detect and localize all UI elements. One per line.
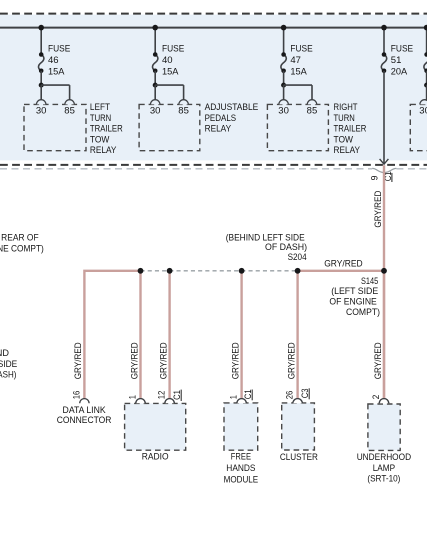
svg-text:15A: 15A <box>162 66 179 77</box>
terminal arc at underhood lamp pin 2 <box>379 399 388 404</box>
fuse F1 (FUSE 46) <box>39 55 44 71</box>
svg-text:MODULE: MODULE <box>224 474 259 485</box>
right turn trailer tow relay box <box>267 104 328 150</box>
tee junction dot <box>281 83 286 88</box>
svg-text:26: 26 <box>285 391 296 400</box>
svg-text:LAMP: LAMP <box>373 463 395 474</box>
connector C1 underline <box>391 173 393 182</box>
svg-text:DATA LINK: DATA LINK <box>63 405 107 416</box>
terminal arc at hands free module pin 1 <box>237 399 246 404</box>
cluster box <box>282 403 315 450</box>
terminal arc at radio pin 12 <box>165 399 174 404</box>
partial relay pin 30 terminal arc <box>420 100 427 105</box>
svg-text:12: 12 <box>157 391 168 400</box>
wire from bus to fuse F3 <box>283 28 285 55</box>
svg-text:RELAY: RELAY <box>334 145 361 156</box>
PDC bottom dashed border <box>0 164 427 166</box>
svg-text:CLUSTER: CLUSTER <box>280 452 318 463</box>
GRY/RED wire splice S204 to splice S145 <box>298 270 384 272</box>
bus junction dot at fuse F4 <box>381 25 387 31</box>
pin 85 drop wire <box>69 85 71 100</box>
partial relay at right edge box <box>410 104 427 150</box>
svg-text:16: 16 <box>71 391 82 400</box>
svg-text:85: 85 <box>178 106 189 117</box>
GRY/RED wire drop to radio pin 12 <box>168 271 170 399</box>
svg-text:47: 47 <box>290 55 301 66</box>
svg-text:FUSE: FUSE <box>162 43 184 54</box>
radio box <box>125 403 186 450</box>
right turn trailer tow relay pin 30 terminal arc <box>279 100 288 105</box>
svg-text:PEDALS: PEDALS <box>205 113 237 124</box>
svg-text:RADIO: RADIO <box>142 452 169 463</box>
svg-text:GRY/RED: GRY/RED <box>324 259 363 270</box>
wire fuse F51 output down to PDC border <box>383 71 385 164</box>
svg-text:85: 85 <box>64 106 75 117</box>
fuse F2 (FUSE 40) <box>153 55 158 71</box>
svg-text:FUSE: FUSE <box>290 43 312 54</box>
svg-text:1: 1 <box>229 395 240 399</box>
svg-text:ND: ND <box>0 348 9 359</box>
svg-text:(SRT-10): (SRT-10) <box>367 474 400 485</box>
svg-text:30: 30 <box>150 106 161 117</box>
svg-text:SIDE: SIDE <box>0 359 17 370</box>
pin 30 drop wire <box>154 85 156 100</box>
svg-text:40: 40 <box>162 55 173 66</box>
power distribution center interior (blue fill) <box>0 15 427 161</box>
wire from bus to fuse F5 <box>426 28 427 55</box>
GRY/RED wire drop to radio pin 1 <box>139 271 141 399</box>
terminal arc at cluster pin 26 <box>293 399 302 404</box>
wire fuse F5 to relay tee <box>426 71 427 85</box>
adjustable pedals relay pin 85 terminal arc <box>179 100 188 105</box>
svg-text:20A: 20A <box>391 66 408 77</box>
splice S145 dot <box>381 268 387 274</box>
wire from bus to fuse F2 <box>154 28 156 55</box>
svg-text:GRY/RED: GRY/RED <box>373 190 384 227</box>
svg-text:TOW: TOW <box>90 134 110 145</box>
wire fuse F3 to relay tee <box>283 71 285 85</box>
bus bar wire (fused B+) <box>0 27 427 29</box>
svg-text:GRY/RED: GRY/RED <box>73 342 84 379</box>
svg-text:TURN: TURN <box>334 113 355 124</box>
pin 85 drop wire <box>183 85 185 100</box>
svg-text:HANDS: HANDS <box>226 463 255 474</box>
hands free module box <box>224 403 258 450</box>
svg-text:30: 30 <box>278 106 289 117</box>
svg-text:TRAILER: TRAILER <box>334 124 367 135</box>
unshown-circuits dashed wire between splices <box>141 270 298 272</box>
bus junction dot at fuse F1 <box>38 25 44 31</box>
svg-text:GRY/RED: GRY/RED <box>286 342 297 379</box>
dash panel grey dashed border <box>0 168 372 170</box>
bus junction dot at fuse F3 <box>281 25 287 31</box>
GRY/RED wire corner run to data link connector <box>84 271 140 399</box>
svg-text:COMPT): COMPT) <box>346 307 380 318</box>
svg-text:UNDERHOOD: UNDERHOOD <box>357 452 412 463</box>
wire from bus to fuse F4 <box>383 28 385 55</box>
tee junction dot <box>39 83 44 88</box>
svg-text:GRY/RED: GRY/RED <box>373 342 384 379</box>
grey connector bracket at dash panel line <box>372 168 396 172</box>
GRY/RED wire splice S145 down to underhood lamp <box>383 271 385 399</box>
fuse F5 (partial at edge) <box>424 55 427 71</box>
tee junction dot <box>153 83 158 88</box>
right turn trailer tow relay pin 85 terminal arc <box>307 100 316 105</box>
splice dot (hands free module branch) <box>239 268 245 274</box>
tee branch wire to pin 85 <box>41 84 69 86</box>
PDC top dashed border <box>0 13 427 15</box>
svg-text:ADJUSTABLE: ADJUSTABLE <box>205 102 259 113</box>
terminal arc at data link connector <box>80 399 89 404</box>
svg-text:RIGHT: RIGHT <box>334 102 358 113</box>
svg-text:9: 9 <box>370 176 381 181</box>
svg-text:ENGINE COMPT): ENGINE COMPT) <box>0 244 44 255</box>
svg-text:CONNECTOR: CONNECTOR <box>57 415 112 426</box>
left turn trailer tow relay box <box>24 104 86 150</box>
svg-text:ASH): ASH) <box>0 370 16 381</box>
terminal arc at radio pin 1 <box>136 399 145 404</box>
GRY/RED wire drop to cluster pin 26 <box>296 271 298 399</box>
splice dot (radio pin 12 branch) <box>167 268 173 274</box>
tee junction dot <box>424 83 427 88</box>
svg-text:30: 30 <box>419 106 427 117</box>
wire from bus to fuse F1 <box>40 28 42 55</box>
svg-text:(LEFT REAR OF: (LEFT REAR OF <box>0 233 39 244</box>
arrowhead leaving PDC <box>380 159 389 164</box>
pin 30 drop wire <box>283 85 285 100</box>
left turn trailer tow relay pin 85 terminal arc <box>65 100 74 105</box>
left turn trailer tow relay pin 30 terminal arc <box>37 100 46 105</box>
svg-text:RELAY: RELAY <box>205 124 232 135</box>
svg-text:FUSE: FUSE <box>48 43 70 54</box>
splice S204 dot <box>295 268 301 274</box>
underhood lamp box <box>368 404 400 450</box>
splice dot (radio pin 1 branch) <box>138 268 144 274</box>
svg-text:1: 1 <box>128 395 139 399</box>
svg-text:TOW: TOW <box>334 134 354 145</box>
svg-text:15A: 15A <box>48 66 65 77</box>
svg-text:FREE: FREE <box>231 451 251 462</box>
wire fuse F1 to relay tee <box>40 71 42 85</box>
fuse F4 (FUSE 51) <box>381 55 386 71</box>
svg-text:15A: 15A <box>290 66 307 77</box>
svg-text:LEFT: LEFT <box>90 102 110 113</box>
svg-text:46: 46 <box>48 55 59 66</box>
tee branch wire to pin 85 <box>155 84 183 86</box>
svg-text:85: 85 <box>307 106 318 117</box>
svg-text:TRAILER: TRAILER <box>90 124 123 135</box>
svg-text:S204: S204 <box>288 252 307 263</box>
bus junction dot at fuse F2 <box>152 25 158 31</box>
pin 30 drop wire <box>426 85 427 100</box>
pin 30 drop wire <box>40 85 42 100</box>
svg-text:RELAY: RELAY <box>90 145 117 156</box>
adjustable pedals relay pin 30 terminal arc <box>151 100 160 105</box>
adjustable pedals relay box <box>139 104 200 150</box>
svg-text:FUSE: FUSE <box>391 43 413 54</box>
wire fuse F2 to relay tee <box>154 71 156 85</box>
svg-text:TURN: TURN <box>90 113 111 124</box>
svg-text:51: 51 <box>391 55 402 66</box>
fuse F3 (FUSE 47) <box>281 55 286 71</box>
tee branch wire to pin 85 <box>284 84 312 86</box>
pin 85 drop wire <box>311 85 313 100</box>
bus junction dot at fuse F5 <box>424 25 427 31</box>
svg-text:30: 30 <box>36 106 47 117</box>
GRY/RED wire drop to hands free module pin 1 <box>240 271 242 399</box>
svg-text:GRY/RED: GRY/RED <box>158 342 169 379</box>
GRY/RED wire from C1 down to splice S145 <box>383 165 385 399</box>
svg-text:GRY/RED: GRY/RED <box>230 342 241 379</box>
svg-text:GRY/RED: GRY/RED <box>129 342 140 379</box>
svg-text:2: 2 <box>371 395 382 400</box>
